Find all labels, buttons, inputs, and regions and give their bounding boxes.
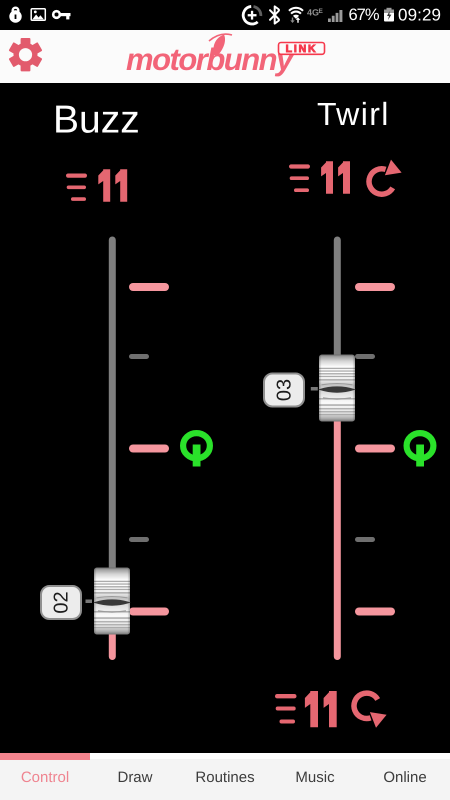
right green Q icon <box>407 433 434 466</box>
motorbunny logo <box>115 33 335 80</box>
svg-text:E: E <box>319 8 324 15</box>
buzz intensity icon (3 bars) <box>66 174 87 201</box>
bottom twirl intensity icon <box>275 694 297 724</box>
twirl rotate cw icon <box>369 160 402 195</box>
bottom tab bar <box>0 753 450 800</box>
right ticks <box>355 283 395 616</box>
active tab indicator <box>0 753 90 760</box>
signal bars <box>328 10 342 22</box>
svg-text:motorbunny: motorbunny <box>126 42 295 77</box>
tab Online <box>360 769 450 786</box>
svg-text:09:29: 09:29 <box>398 6 441 25</box>
left slider pink track <box>109 620 116 660</box>
svg-text:Twirl: Twirl <box>317 96 390 132</box>
bluetooth icon <box>270 6 279 23</box>
right slider gray track <box>334 237 341 364</box>
right value badge 03 <box>264 374 318 407</box>
left thumb <box>94 568 130 635</box>
left slider gray track <box>109 237 116 577</box>
status bar <box>0 0 450 30</box>
tab strip top highlight <box>0 753 450 759</box>
wifi icon <box>289 8 303 23</box>
left value badge 02 <box>41 586 92 619</box>
svg-text:LINK: LINK <box>286 43 318 55</box>
bunny ears <box>213 35 225 56</box>
right thumb <box>319 355 355 422</box>
header bar <box>0 30 450 83</box>
svg-text:67%: 67% <box>349 6 380 24</box>
battery icon <box>384 8 394 22</box>
settings gear <box>8 37 44 73</box>
key icon <box>52 10 71 20</box>
padlock icon <box>9 7 21 23</box>
buzz value 11 <box>98 169 127 202</box>
photo icon <box>31 9 45 21</box>
svg-text:02: 02 <box>51 591 73 613</box>
right slider pink track <box>334 415 341 660</box>
left ticks <box>129 283 169 616</box>
svg-text:Buzz: Buzz <box>53 99 140 142</box>
tab Routines <box>180 769 270 786</box>
tab Draw <box>90 769 180 786</box>
twirl value 11 <box>321 161 350 194</box>
bottom twirl value 11 <box>305 691 337 727</box>
svg-text:03: 03 <box>274 379 296 401</box>
svg-text:4G: 4G <box>307 8 319 18</box>
bottom twirl rotate ccw icon <box>354 693 387 728</box>
tab Music <box>270 769 360 786</box>
twirl intensity icon (3 bars) <box>289 164 310 192</box>
tab Control (active) <box>0 769 90 786</box>
LINK badge <box>279 43 325 55</box>
data saver icon <box>243 6 261 24</box>
left green Q icon <box>183 433 210 466</box>
